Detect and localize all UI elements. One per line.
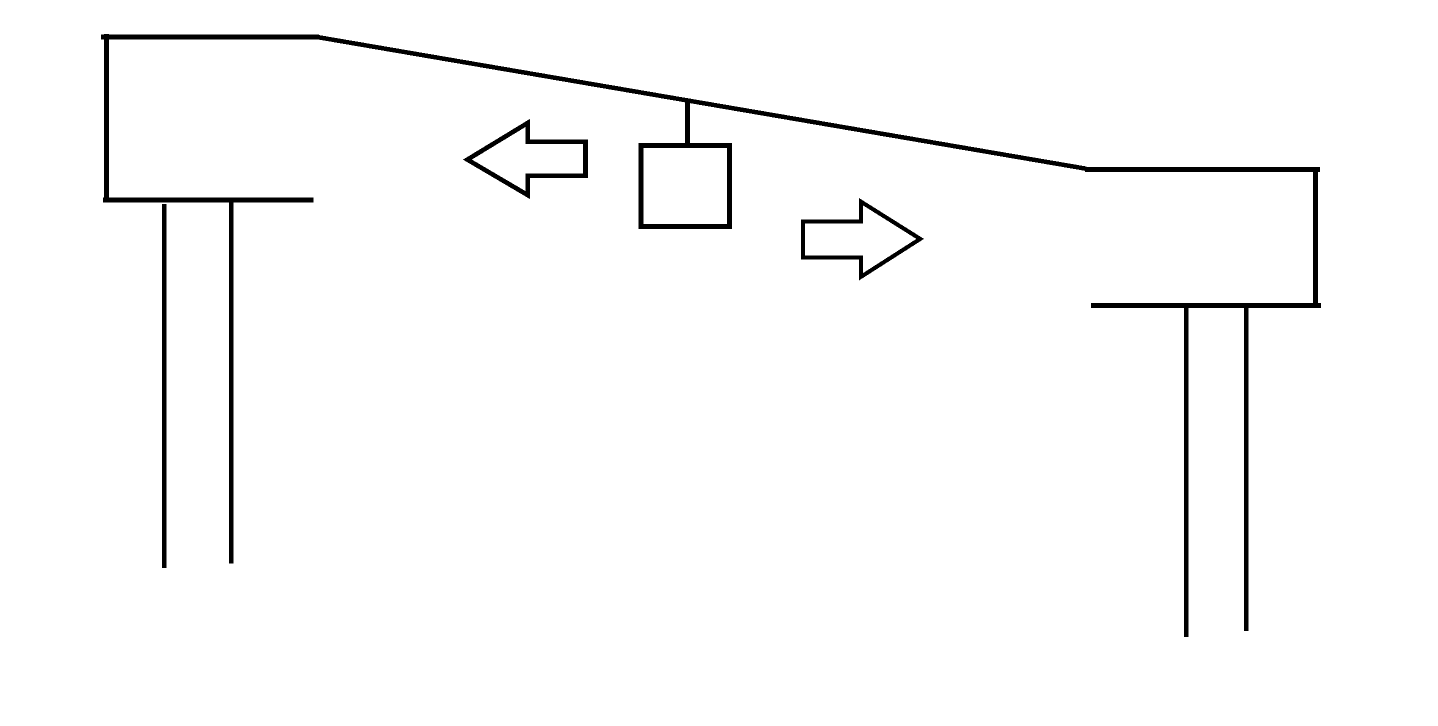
right table right edge: [1313, 167, 1318, 305]
right table bottom edge: [1091, 303, 1321, 308]
left table bottom edge: [103, 198, 314, 203]
left table left edge: [104, 34, 109, 200]
left table right leg: [229, 200, 234, 564]
right table left leg: [1184, 305, 1189, 637]
left-pointing arrow: [467, 123, 585, 195]
hanger line: [685, 100, 690, 146]
right table right leg: [1244, 305, 1249, 631]
hanging block: [641, 145, 729, 226]
left table left leg: [162, 204, 167, 568]
right table top edge: [1085, 167, 1320, 172]
right-pointing arrow: [803, 202, 920, 277]
left table top edge: [101, 35, 319, 40]
sloped cable: [318, 37, 1086, 169]
